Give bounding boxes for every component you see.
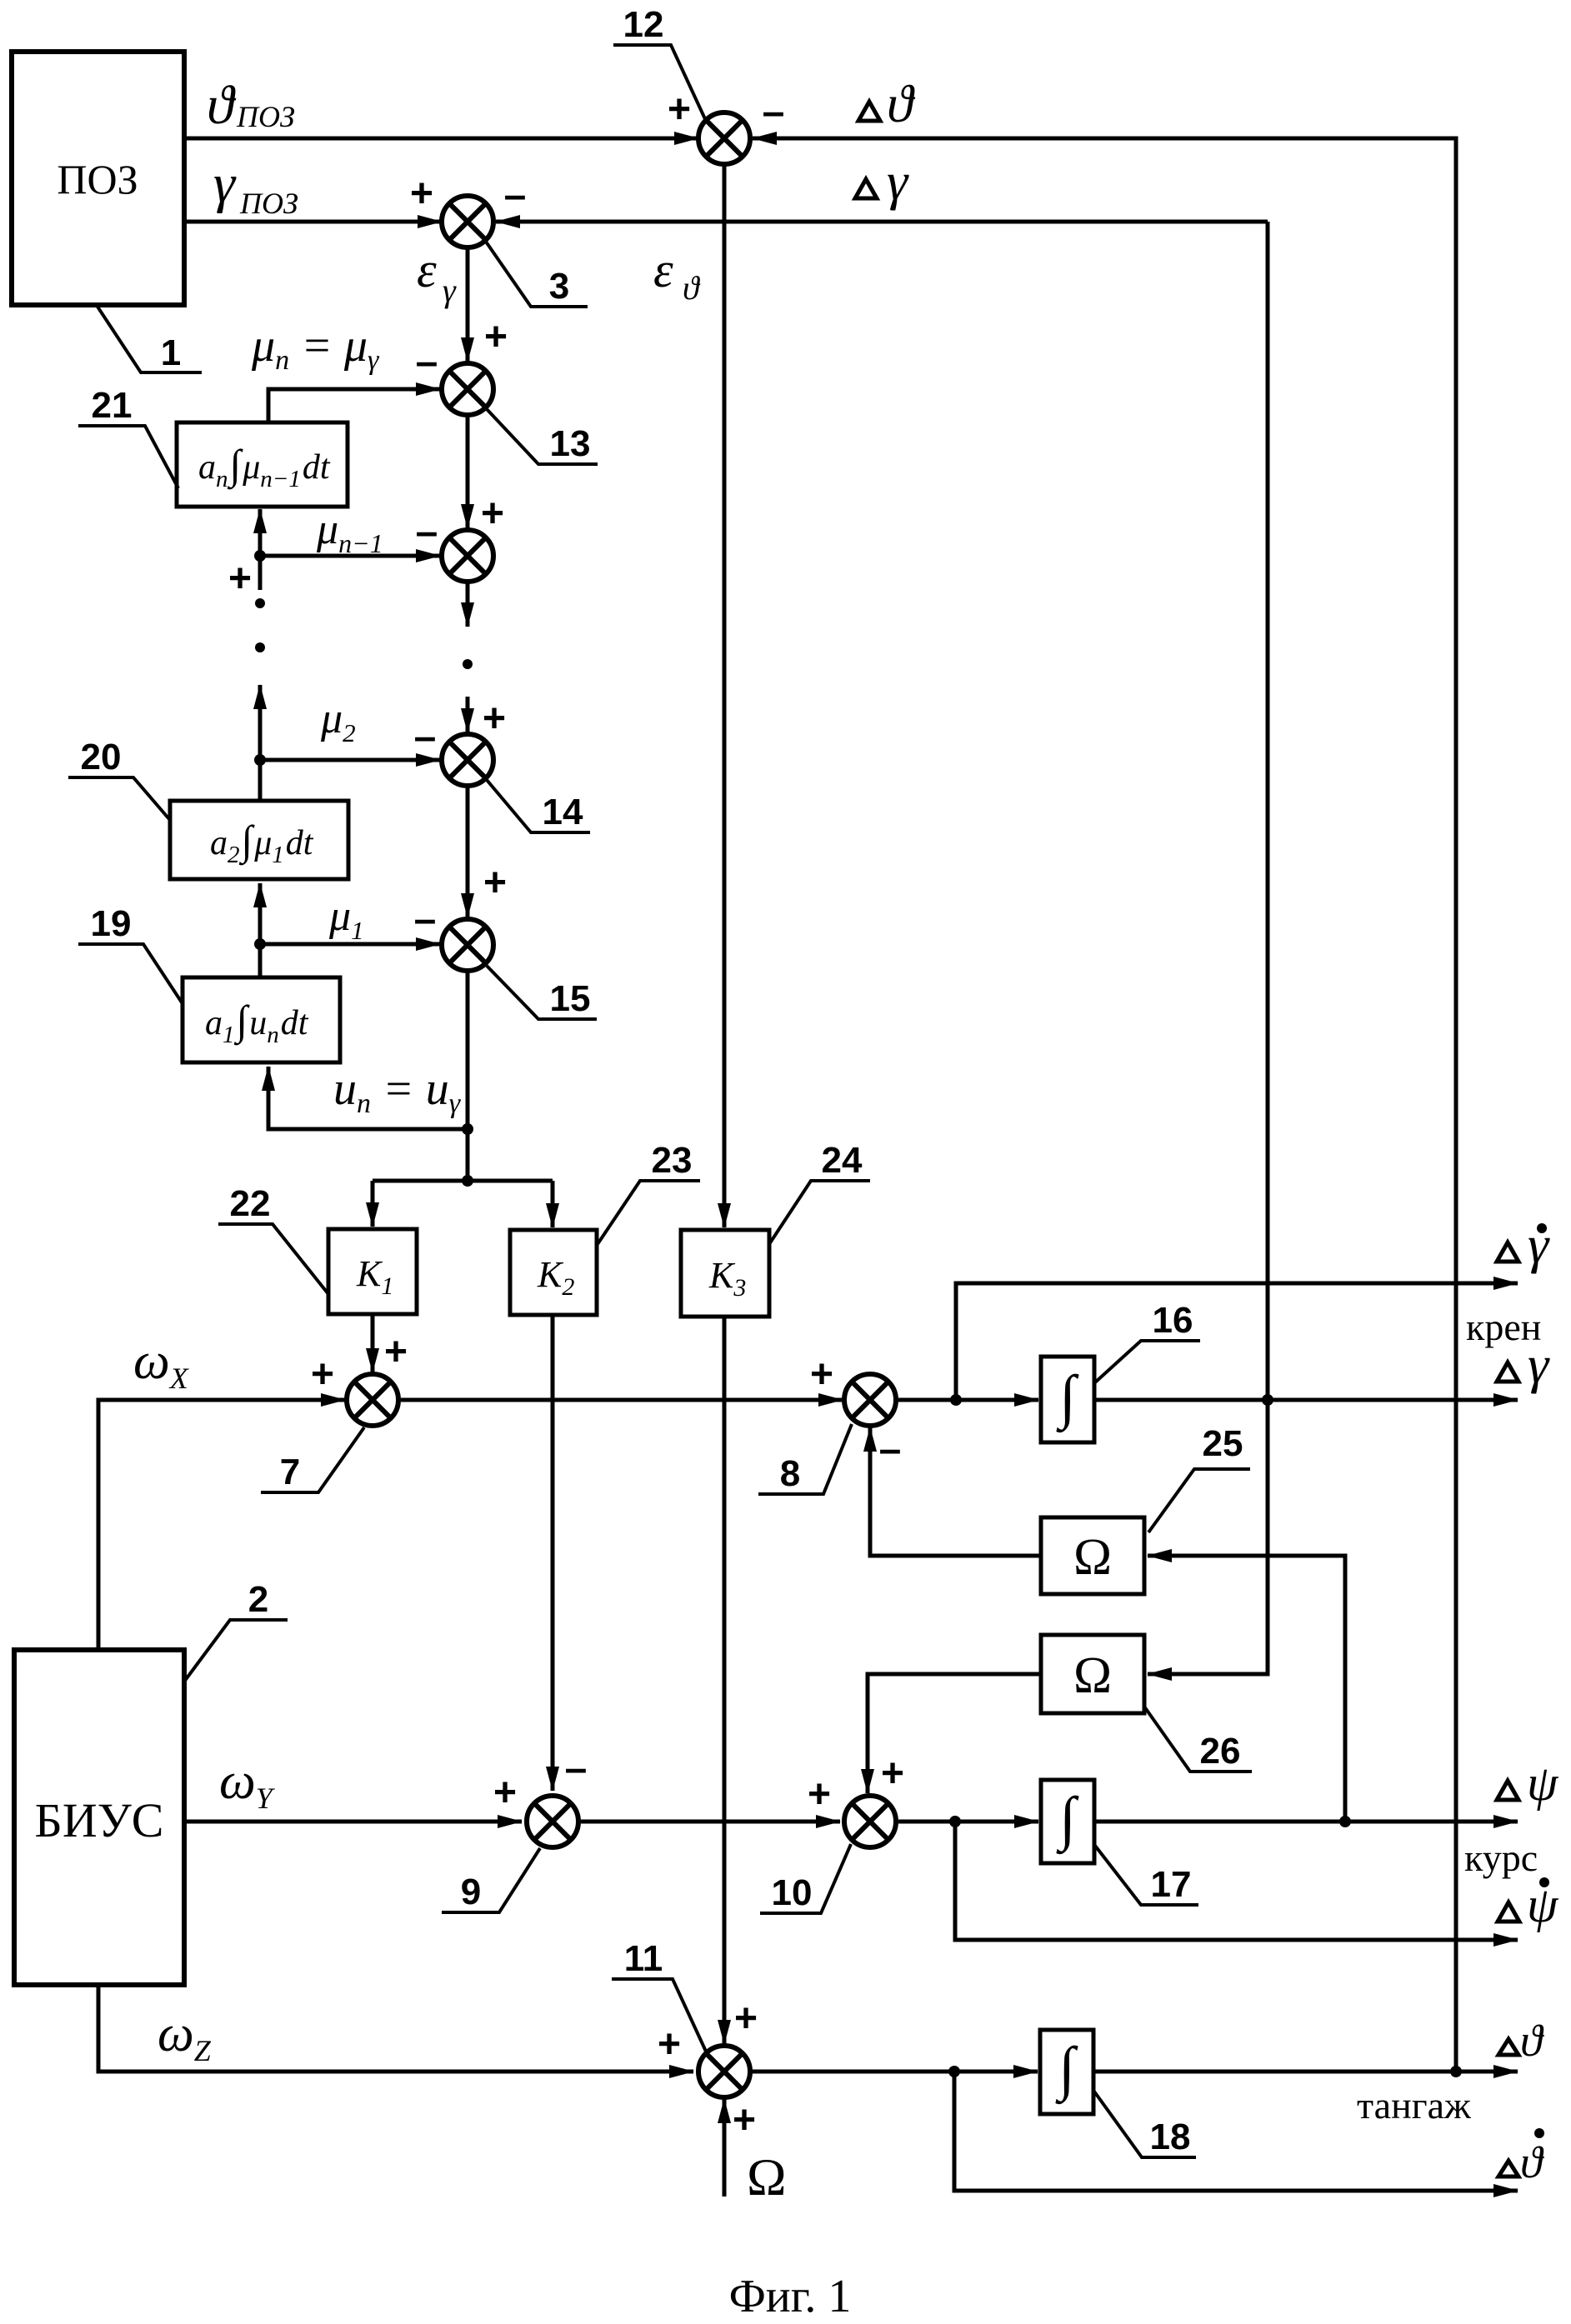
svg-text:20: 20 bbox=[81, 737, 122, 777]
label kren bbox=[1466, 1306, 1541, 1348]
node A (mu_n-1 tap) bbox=[254, 550, 266, 562]
summing junction 7 bbox=[347, 1374, 398, 1426]
node C (mu_1 tap) bbox=[254, 938, 266, 950]
node T (K1/K2 split) bbox=[462, 1175, 473, 1187]
svg-text:γ: γ bbox=[213, 153, 237, 214]
label eps_theta bbox=[653, 242, 701, 307]
summing junction 10 bbox=[844, 1796, 896, 1847]
label delta-gamma-dot output bbox=[1497, 1215, 1550, 1274]
block U2 BIUS bbox=[14, 1650, 184, 1985]
svg-text:16: 16 bbox=[1153, 1300, 1193, 1341]
wire junction 8 output to integrator 16 bbox=[898, 1398, 1038, 1402]
svg-text:+: + bbox=[384, 1330, 408, 1374]
svg-text:–: – bbox=[763, 90, 785, 134]
wire Omega 25 output left and up into junction 8 minus input bbox=[870, 1427, 1041, 1556]
block 21 a_n integral mu_n-1 dt bbox=[177, 422, 348, 507]
wire theta_POZ from POZ to junction 12 bbox=[184, 137, 698, 141]
callout leader 10 bbox=[760, 1844, 851, 1913]
wire Omega 26 output left and down into junction 10 top input bbox=[868, 1674, 1041, 1793]
svg-text:γ: γ bbox=[887, 152, 909, 211]
wire omega_Z from BIUS bottom to junction 11 bbox=[98, 1985, 693, 2072]
wire delta-gamma output from integrator 16 to right edge bbox=[1094, 1398, 1518, 1402]
callout leader 15 bbox=[487, 966, 597, 1019]
callout leader 24 bbox=[769, 1181, 870, 1244]
svg-text:+: + bbox=[481, 492, 504, 536]
wire node A to block 21 input (arrow up) bbox=[258, 509, 263, 556]
svg-text:+: + bbox=[881, 1752, 904, 1796]
svg-text:19: 19 bbox=[91, 903, 132, 944]
label mu_1 bbox=[328, 892, 364, 945]
wire junction 13 output down to unnumbered junction bbox=[466, 414, 470, 528]
label delta-theta output bbox=[1498, 2016, 1544, 2066]
svg-text:ϑ: ϑ bbox=[887, 74, 916, 133]
label gamma_POZ bbox=[213, 153, 298, 220]
svg-text:13: 13 bbox=[550, 423, 591, 464]
gain block 22 K1 bbox=[328, 1229, 417, 1314]
summing junction 12 bbox=[698, 112, 750, 164]
svg-text:γ: γ bbox=[1528, 1215, 1550, 1274]
svg-text:26: 26 bbox=[1200, 1731, 1241, 1772]
label delta-psi output bbox=[1497, 1756, 1559, 1811]
callout leader 21 bbox=[78, 426, 178, 488]
wire psi-line tap up into Omega 25 input bbox=[1148, 1556, 1345, 1822]
svg-text:Ω: Ω bbox=[1073, 1647, 1112, 1704]
label mu_n-1 bbox=[316, 506, 383, 558]
svg-text:–: – bbox=[416, 510, 438, 554]
wire Omega input from bottom into junction 11 bbox=[723, 2099, 727, 2197]
svg-text:Фиг. 1: Фиг. 1 bbox=[729, 2271, 852, 2322]
callout leader 11 bbox=[612, 1979, 707, 2053]
label delta-gamma output bbox=[1497, 1335, 1550, 1394]
callout leader 18 bbox=[1094, 2092, 1196, 2157]
svg-text:8: 8 bbox=[780, 1453, 800, 1494]
integrator 18 bbox=[1040, 2030, 1093, 2114]
summing junction 13 bbox=[442, 363, 493, 415]
wire omega_Y from BIUS to junction 9 bbox=[184, 1820, 522, 1824]
svg-text:+: + bbox=[658, 2022, 681, 2067]
wire delta-gamma-dot branch up and right bbox=[956, 1283, 1518, 1400]
svg-text:3: 3 bbox=[549, 266, 569, 307]
svg-text:ε: ε bbox=[653, 242, 673, 297]
svg-text:–: – bbox=[565, 1747, 588, 1791]
callout leader 12 bbox=[613, 45, 706, 121]
svg-text:–: – bbox=[879, 1427, 902, 1472]
svg-text:+: + bbox=[733, 2098, 756, 2142]
summing junction 15 bbox=[442, 919, 493, 971]
label omega_Y bbox=[219, 1753, 276, 1815]
svg-text:Ω: Ω bbox=[747, 2147, 787, 2207]
node F (delta-gamma feedback tap) bbox=[1262, 1394, 1273, 1406]
label figure caption Fig.1 bbox=[729, 2271, 852, 2322]
svg-text:тангаж: тангаж bbox=[1357, 2084, 1471, 2127]
svg-text:–: – bbox=[416, 340, 438, 384]
wire resuming segment into junction 14 bbox=[466, 697, 470, 732]
wire block 21 output to junction 13 left input bbox=[268, 389, 440, 422]
svg-text:14: 14 bbox=[543, 792, 583, 832]
node E (before integrator 16) bbox=[950, 1394, 962, 1406]
svg-text:un = uγ: un = uγ bbox=[333, 1063, 462, 1119]
wire junction 11 output to integrator 18 bbox=[749, 2070, 1038, 2074]
wire delta-gamma feedback vertical down into Omega 26 input bbox=[1148, 222, 1268, 1674]
svg-text:a1∫undt: a1∫undt bbox=[205, 997, 309, 1048]
svg-text:γ: γ bbox=[1528, 1335, 1550, 1394]
svg-text:+: + bbox=[483, 697, 506, 741]
wire junction 12 output down to K3 (eps_theta) bbox=[723, 163, 727, 1227]
wire u_n=u_gamma from junction 15 down, left and up into block 19 bbox=[268, 970, 468, 1129]
callout leader 26 bbox=[1144, 1707, 1252, 1772]
callout leader 20 bbox=[68, 777, 169, 819]
svg-text:ϑ: ϑ bbox=[1520, 2137, 1544, 2187]
svg-text:ϑ: ϑ bbox=[1520, 2016, 1544, 2066]
wire mu_1 from node C to junction 15 bbox=[260, 942, 440, 947]
svg-text:15: 15 bbox=[550, 978, 591, 1019]
SIGNS bbox=[228, 87, 904, 2142]
svg-text:μn = μγ: μn = μγ bbox=[251, 320, 380, 376]
label tangazh bbox=[1357, 2084, 1471, 2127]
node J (delta-theta feedback tap) bbox=[1450, 2066, 1462, 2077]
svg-text:11: 11 bbox=[624, 1938, 663, 1979]
callout leader 7 bbox=[261, 1427, 364, 1492]
wire chain arrow up toward ellipsis bbox=[258, 685, 263, 760]
callout leader 14 bbox=[487, 780, 590, 832]
wire junction 14 output down to junction 15 bbox=[466, 785, 470, 917]
block 26 Omega bbox=[1041, 1635, 1144, 1713]
callout leader 25 bbox=[1148, 1469, 1250, 1532]
callout leader 1 bbox=[98, 307, 202, 372]
wire delta-gamma feedback: from vertical x=1521 into junction 3 right input bbox=[496, 220, 1268, 224]
svg-text:10: 10 bbox=[772, 1872, 813, 1913]
wire delta-psi-dot branch down and right bbox=[955, 1822, 1518, 1940]
callout leader 23 bbox=[598, 1181, 700, 1244]
svg-text:24: 24 bbox=[822, 1140, 863, 1181]
wire node B to block 20 top bbox=[258, 760, 263, 801]
svg-text:21: 21 bbox=[92, 385, 133, 426]
wire mu_n-1 from node A to unnumbered junction bbox=[260, 554, 440, 558]
svg-text:17: 17 bbox=[1151, 1864, 1192, 1905]
svg-text:22: 22 bbox=[230, 1183, 271, 1224]
wire from node D down to T-node bbox=[466, 1129, 470, 1181]
gain block 23 K2 bbox=[510, 1230, 597, 1315]
svg-text:+: + bbox=[483, 861, 507, 905]
callout leader 16 bbox=[1095, 1341, 1200, 1382]
wire stub below node A bbox=[258, 556, 263, 590]
wire gamma_POZ from POZ to junction 3 bbox=[184, 220, 442, 224]
block 19 a_1 integral u_n dt bbox=[183, 977, 340, 1062]
label delta-theta at top right bbox=[858, 74, 916, 133]
svg-text:+: + bbox=[668, 87, 691, 132]
svg-text:ε: ε bbox=[417, 242, 437, 297]
wire omega_X from BIUS top to junction 7 bbox=[98, 1400, 345, 1650]
wire delta-theta output from integrator 18 to right edge bbox=[1093, 2070, 1518, 2074]
block U1 POZ bbox=[12, 52, 184, 305]
summing junction 3 bbox=[442, 196, 493, 247]
callout leader 13 bbox=[487, 409, 598, 464]
wire K3 output down to junction 11 top input bbox=[723, 1317, 727, 2044]
svg-text:+: + bbox=[493, 1771, 517, 1815]
svg-text:+: + bbox=[410, 172, 433, 216]
svg-text:+: + bbox=[311, 1352, 334, 1397]
ellipsis dots left chain bbox=[255, 598, 265, 608]
wire delta-psi output from integrator 17 to right edge bbox=[1094, 1820, 1518, 1824]
ellipsis dot right chain bbox=[463, 659, 473, 669]
summing junction 11 bbox=[698, 2046, 750, 2097]
summing junction 14 bbox=[442, 734, 493, 786]
callout leader 17 bbox=[1095, 1846, 1198, 1905]
gain block 24 K3 bbox=[681, 1230, 769, 1317]
wire junction 9 output to junction 10 bbox=[581, 1820, 840, 1824]
node I (before integrator 18) bbox=[948, 2066, 960, 2077]
block 25 Omega bbox=[1041, 1517, 1144, 1594]
svg-text:12: 12 bbox=[623, 4, 664, 45]
callout leader 2 bbox=[184, 1620, 288, 1682]
node H (psi tap to Omega 25) bbox=[1339, 1816, 1351, 1827]
svg-text:ϑ: ϑ bbox=[207, 75, 237, 136]
label delta-gamma at top right bbox=[855, 152, 909, 211]
wire junction 7 output to junction 8 bbox=[401, 1398, 843, 1402]
label omega_Z bbox=[158, 2006, 212, 2067]
block 20 a_2 integral mu_1 dt bbox=[170, 801, 348, 879]
svg-text:18: 18 bbox=[1150, 2117, 1191, 2157]
svg-text:–: – bbox=[414, 897, 437, 942]
svg-text:+: + bbox=[810, 1352, 833, 1397]
svg-text:БИУС: БИУС bbox=[35, 1793, 164, 1847]
svg-text:23: 23 bbox=[652, 1140, 693, 1181]
summing junction 9 bbox=[527, 1796, 578, 1847]
svg-text:1: 1 bbox=[161, 332, 181, 373]
svg-text:ПОЗ: ПОЗ bbox=[57, 156, 138, 202]
label mu_n = mu_gamma bbox=[251, 320, 380, 376]
svg-text:Ω: Ω bbox=[1073, 1529, 1112, 1586]
wire K1 output down to junction 7 bbox=[371, 1314, 375, 1372]
callout leader 3 bbox=[486, 242, 588, 307]
summing junction 8 bbox=[844, 1374, 896, 1426]
svg-text:a2∫μ1dt: a2∫μ1dt bbox=[210, 817, 314, 868]
label eps_gamma bbox=[417, 242, 457, 309]
svg-text:+: + bbox=[484, 315, 508, 359]
wire unnumbered junction output down arrow bbox=[466, 581, 470, 627]
label u_n = u_gamma bbox=[333, 1063, 462, 1119]
label Omega at junction 11 bottom input bbox=[747, 2147, 787, 2207]
label mu_2 bbox=[320, 695, 356, 747]
svg-text:ПОЗ: ПОЗ bbox=[236, 100, 295, 133]
wire delta-theta feedback: vertical x=1747 down from top corner, into junction 12 right input bbox=[753, 138, 1456, 2072]
svg-text:–: – bbox=[504, 173, 527, 217]
callout leader 9 bbox=[442, 1848, 540, 1912]
svg-text:ϑ: ϑ bbox=[683, 269, 701, 307]
label theta_POZ bbox=[207, 75, 295, 136]
wire T-bar to K1 and K2 inputs bbox=[373, 1179, 553, 1183]
label kurs bbox=[1464, 1837, 1538, 1879]
node D (u_n tap) bbox=[462, 1123, 473, 1135]
svg-text:2: 2 bbox=[248, 1579, 268, 1620]
wire block 19 output up to node C and block 20 input bbox=[258, 883, 263, 977]
node B (mu_2 tap) bbox=[254, 754, 266, 766]
callout leader 8 bbox=[758, 1424, 852, 1494]
label omega_X bbox=[133, 1333, 190, 1395]
callout leader 19 bbox=[78, 944, 183, 1005]
wire junction 3 output down to junction 13 (eps_gamma) bbox=[466, 247, 470, 362]
node dots bbox=[254, 550, 1462, 2077]
svg-text:7: 7 bbox=[280, 1452, 300, 1492]
svg-text:ψ: ψ bbox=[1527, 1756, 1559, 1811]
svg-text:курс: курс bbox=[1464, 1837, 1538, 1879]
svg-text:γ: γ bbox=[443, 272, 457, 309]
wire junction 10 output to integrator 17 bbox=[898, 1820, 1038, 1824]
integrator 17 bbox=[1041, 1780, 1094, 1863]
CALLOUTS bbox=[68, 45, 1252, 2157]
summing junction unnumbered (n-1 stage) bbox=[442, 530, 493, 582]
label delta-theta-dot output bbox=[1498, 2128, 1544, 2187]
callout leader 22 bbox=[218, 1224, 328, 1294]
wire mu_2 from node B to junction 14 bbox=[260, 758, 440, 762]
svg-text:–: – bbox=[414, 715, 437, 759]
svg-text:25: 25 bbox=[1203, 1423, 1243, 1464]
svg-text:+: + bbox=[228, 557, 252, 601]
label delta-psi-dot output bbox=[1498, 1877, 1559, 1932]
node G (before integrator 17) bbox=[949, 1816, 961, 1827]
svg-text:ПОЗ: ПОЗ bbox=[239, 187, 298, 220]
integrator 16 bbox=[1041, 1357, 1094, 1442]
wire delta-theta-dot branch down and right bbox=[954, 2072, 1518, 2191]
svg-text:+: + bbox=[808, 1772, 831, 1817]
wire K2 output down to junction 9 top input bbox=[551, 1315, 555, 1791]
svg-text:+: + bbox=[734, 1997, 758, 2041]
svg-text:9: 9 bbox=[461, 1872, 481, 1912]
